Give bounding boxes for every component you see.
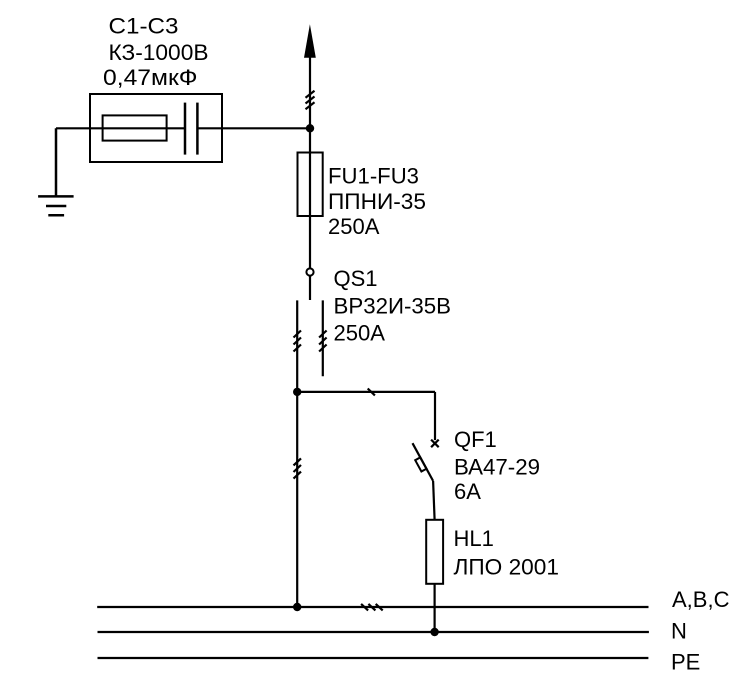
node junction on ABC bus <box>293 603 301 611</box>
slash on branch wire <box>368 389 375 396</box>
slashes on main drop <box>294 458 302 478</box>
slashes on QS1 right pole <box>319 331 327 352</box>
svg-text:ВА47-29: ВА47-29 <box>454 454 540 479</box>
wire lamp to N bus <box>434 584 436 632</box>
QF1 breaker blade <box>413 443 434 481</box>
bus N <box>98 631 649 633</box>
svg-text:ЛПО 2001: ЛПО 2001 <box>454 554 560 579</box>
bus PE <box>98 657 649 659</box>
disconnector QS1 hinge circle <box>306 268 313 275</box>
bus A,B,C <box>97 606 648 608</box>
wire capacitor to ground <box>56 127 185 129</box>
slashes on QS1 left pole <box>294 331 302 352</box>
slashes on ABC bus <box>361 604 383 611</box>
svg-text:250А: 250А <box>334 321 386 346</box>
svg-text:6А: 6А <box>454 479 481 504</box>
svg-text:N: N <box>671 619 687 644</box>
svg-text:250А: 250А <box>328 214 380 239</box>
svg-text:А,В,С: А,В,С <box>672 587 730 612</box>
svg-text:ВР32И-35В: ВР32И-35В <box>334 293 452 318</box>
svg-text:ППНИ-35: ППНИ-35 <box>328 189 426 214</box>
QS1 right pole line <box>322 300 324 376</box>
fuse FU1-FU3 <box>298 153 323 217</box>
svg-text:С1-С3: С1-С3 <box>109 14 179 39</box>
ground <box>38 128 74 215</box>
wire horizontal to capacitor <box>197 127 310 129</box>
capacitor block C1-C3 outer box <box>90 94 222 162</box>
QS1 blade stub <box>309 276 311 300</box>
wire main feeder vertical <box>309 56 311 268</box>
wire blade to lamp <box>433 481 435 520</box>
svg-text:QF1: QF1 <box>454 427 497 452</box>
node junction QS1 bottom <box>293 388 301 396</box>
svg-text:FU1-FU3: FU1-FU3 <box>328 163 419 188</box>
node junction top <box>306 124 314 132</box>
3-phase slashes on feeder <box>306 91 315 110</box>
wire branch horizontal to QF1 <box>297 391 435 393</box>
svg-text:0,47мкФ: 0,47мкФ <box>103 65 198 90</box>
svg-text:QS1: QS1 <box>334 266 378 291</box>
QF1 fixed contact cross <box>431 440 439 448</box>
QF1 release box on blade <box>415 457 426 471</box>
wire QF1 drop <box>434 392 436 440</box>
lamp HL1 body <box>426 520 443 584</box>
svg-text:PE: PE <box>671 650 700 675</box>
QS1 left pole line <box>296 300 298 392</box>
capacitor C plates <box>184 103 187 155</box>
svg-text:HL1: HL1 <box>454 526 494 551</box>
wire main drop to ABC bus <box>296 392 298 607</box>
resistor (discharge) inside block <box>103 115 167 140</box>
node junction on N bus <box>430 628 438 636</box>
svg-text:КЗ-1000В: КЗ-1000В <box>109 40 209 65</box>
supply arrow <box>304 24 316 58</box>
